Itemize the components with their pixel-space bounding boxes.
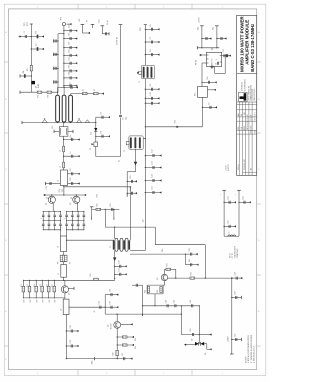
transistor Q4 BD139 <box>108 314 121 359</box>
resistor R6 <box>47 91 52 97</box>
wire T2 secondary down <box>127 149 137 196</box>
svg-text:3. SEE A.B.1,2,3,4,5,6: 3. SEE A.B.1,2,3,4,5,6 <box>253 346 256 363</box>
svg-text:C62: C62 <box>69 72 71 75</box>
svg-text:L5: L5 <box>58 180 60 182</box>
capacitor C51 <box>63 33 77 40</box>
svg-text:L3: L3 <box>59 150 61 152</box>
resistor R24 <box>190 272 195 279</box>
capacitor C14 <box>145 174 162 182</box>
svg-text:Q3: Q3 <box>69 293 71 295</box>
title text AMPLIFIER MODULE <box>245 20 250 65</box>
svg-text:Q4: Q4 <box>108 325 110 327</box>
transistor Q5 <box>157 274 168 280</box>
wire U2 output <box>208 89 216 91</box>
svg-text:J3: J3 <box>94 311 96 313</box>
capacitor C35 <box>105 289 118 296</box>
wire U2 to interstage <box>201 97 203 127</box>
ladder value labels <box>24 299 57 303</box>
svg-text:R13: R13 <box>27 284 29 287</box>
svg-text:R17: R17 <box>52 284 54 287</box>
svg-text:L8: L8 <box>60 309 62 311</box>
resistor R7 pair <box>58 252 72 265</box>
svg-text:D4: D4 <box>205 353 207 355</box>
capacitor C3 <box>96 112 110 119</box>
capacitor C9 <box>145 84 160 91</box>
svg-text:C22: C22 <box>52 126 54 129</box>
wire U1 output net <box>201 63 206 87</box>
wire T3 output <box>113 251 116 279</box>
svg-text:D3: D3 <box>191 339 193 341</box>
ferrite bead FB1 <box>175 120 180 128</box>
capacitor bank Q2 emitter <box>64 211 86 230</box>
capacitor C2 <box>70 82 78 89</box>
svg-text:C54: C54 <box>69 57 71 60</box>
svg-text:SUPPLY: SUPPLY <box>228 163 230 171</box>
transistor Q1 <box>46 195 56 211</box>
svg-text:R15: R15 <box>40 284 42 287</box>
svg-text:C52: C52 <box>69 42 71 45</box>
svg-text:+: + <box>220 194 222 195</box>
svg-text:C34: C34 <box>98 301 100 304</box>
terminal TAB1 <box>42 118 47 122</box>
resistor R4 <box>20 71 32 78</box>
resistor R19 <box>117 344 137 349</box>
inductor L9 <box>224 232 239 237</box>
wire predriver collector bus <box>43 188 86 196</box>
capacitor C8 <box>145 50 160 57</box>
wire Q5 collector <box>168 278 177 279</box>
wire balun top net <box>58 87 78 95</box>
diode D1 <box>32 81 41 88</box>
svg-text:NOTES:: NOTES: <box>245 356 247 363</box>
wire attenuator rail <box>91 117 121 156</box>
resistor R15 <box>40 280 44 299</box>
wire collector supply line <box>176 277 233 279</box>
wire Q5 emitter <box>164 281 166 285</box>
svg-text:R16: R16 <box>46 284 48 287</box>
svg-text:C14: C14 <box>152 174 154 177</box>
svg-text:R23: R23 <box>157 290 159 293</box>
capacitor C40 <box>130 248 198 255</box>
company address text <box>248 85 256 101</box>
svg-text:RF IN: RF IN <box>195 59 197 65</box>
company name text <box>242 79 247 92</box>
svg-text:1. NOT ALL COMPONENTS FITTED: 1. NOT ALL COMPONENTS FITTED <box>247 335 250 363</box>
title block outline <box>237 15 257 175</box>
capacitor C58 <box>54 80 59 83</box>
wire RF drive input <box>195 54 206 65</box>
svg-text:C16: C16 <box>99 20 101 23</box>
svg-text:C31: C31 <box>118 268 120 271</box>
svg-text:M57727: M57727 <box>212 59 214 66</box>
svg-text:C28: C28 <box>70 178 72 181</box>
svg-text:C41: C41 <box>189 259 191 262</box>
title table grid <box>237 102 257 175</box>
capacitor C25 <box>63 152 80 158</box>
svg-text:T3: T3 <box>110 246 112 248</box>
svg-text:TR4: TR4 <box>162 249 164 252</box>
svg-text:R24: R24 <box>190 272 192 275</box>
svg-text:C2: C2 <box>35 44 37 46</box>
svg-text:C48: C48 <box>235 272 237 275</box>
capacitor C52 <box>63 42 77 49</box>
svg-text:BD139: BD139 <box>110 324 112 330</box>
filter U2 <box>195 87 208 98</box>
frame zone ticks top edge <box>37 4 224 9</box>
wire bias rail <box>63 26 65 88</box>
capacitor C30 <box>114 260 127 267</box>
svg-text:FL1: FL1 <box>195 93 197 96</box>
svg-text:R30: R30 <box>59 189 61 192</box>
svg-text:C10: C10 <box>150 92 152 95</box>
svg-text:L7: L7 <box>58 273 60 275</box>
inductor L4 <box>59 162 64 168</box>
svg-text:C59: C59 <box>130 176 132 179</box>
svg-text:1n: 1n <box>70 135 72 137</box>
svg-text:1n: 1n <box>119 160 121 162</box>
svg-text:C40: C40 <box>189 248 191 251</box>
capacitor C4 <box>95 131 110 138</box>
wire balun bottom bus <box>22 121 91 124</box>
svg-text:B.123.10: B.123.10 <box>250 114 252 120</box>
page outline (scan edge) <box>4 4 266 375</box>
frame zone ticks left edge <box>4 31 8 361</box>
inductor L3 <box>59 146 64 152</box>
svg-text:C30: C30 <box>118 260 120 263</box>
wire Q4 base stub <box>121 323 133 325</box>
svg-text:C36: C36 <box>110 301 112 304</box>
capacitor C46 <box>231 292 241 299</box>
svg-text:C45: C45 <box>190 329 192 332</box>
wire decoupling rail A <box>220 190 226 236</box>
svg-text:+13.8V: +13.8V <box>198 16 200 23</box>
svg-text:C2: C2 <box>70 82 72 84</box>
wire predriver feed <box>63 186 131 195</box>
capacitor C18 <box>216 37 226 40</box>
fuse F1 <box>90 142 98 150</box>
resistor R20 <box>113 350 119 355</box>
inductor L1a <box>71 89 104 95</box>
svg-text:C44: C44 <box>243 196 245 199</box>
resistor R10 bias ladder <box>90 204 120 211</box>
svg-text:J1 RF IN: J1 RF IN <box>117 37 119 45</box>
inductor L8 choke <box>60 299 69 314</box>
capacitor C32 <box>66 325 79 332</box>
transformer T1 winding a <box>56 95 60 122</box>
wire driver supply stub 2 <box>215 26 219 48</box>
svg-text:C9 1n: C9 1n <box>107 20 109 25</box>
terminal TAB2 <box>77 118 82 122</box>
svg-text:C43: C43 <box>228 221 230 224</box>
resistor R12 <box>21 280 25 299</box>
svg-text:FIT TO: FIT TO <box>232 252 234 258</box>
wire rail to T3 <box>130 187 145 251</box>
trimmer capacitor CV1 <box>52 123 73 141</box>
terminal TAB3 <box>85 120 89 123</box>
wire driver supply stub 1 <box>198 16 203 47</box>
transformer T1 winding c <box>69 95 73 122</box>
svg-text:C39: C39 <box>173 300 175 303</box>
transformer T2 interstage <box>124 136 146 152</box>
wire supply node net <box>69 295 106 315</box>
svg-text:C3: C3 <box>101 112 103 114</box>
svg-text:C32: C32 <box>70 325 72 328</box>
capacitor C62 <box>63 72 77 79</box>
capacitor C31 <box>114 268 127 275</box>
svg-text:R7: R7 <box>87 20 89 22</box>
inductor L5 choke <box>58 170 68 186</box>
svg-text:T2: T2 <box>124 150 126 152</box>
wire output stub network <box>180 306 182 335</box>
capacitor C38 <box>166 300 169 307</box>
wire output chain down <box>65 315 67 359</box>
resistor R14 <box>34 280 38 299</box>
wire output node <box>199 306 212 344</box>
svg-text:2. * DENOTES SELECTED ON TEST: 2. * DENOTES SELECTED ON TEST <box>251 335 253 363</box>
svg-text:10: 10 <box>209 103 211 105</box>
wire decoupling bus <box>142 294 200 307</box>
svg-text:Q1: Q1 <box>46 203 48 205</box>
inductor L6 choke <box>58 236 67 252</box>
svg-text:C6: C6 <box>150 24 152 26</box>
svg-text:COMTECH: COMTECH <box>242 82 244 91</box>
transformer T1 <box>137 65 154 83</box>
wire antenna rail <box>227 278 234 354</box>
resistor R1 <box>19 31 45 38</box>
svg-text:Q2: Q2 <box>70 203 72 205</box>
capacitor C6 <box>145 24 160 31</box>
svg-text:C37: C37 <box>122 353 124 356</box>
capacitor C45 <box>181 329 199 336</box>
capacitor C16 <box>99 20 109 36</box>
svg-text:R12: R12 <box>21 284 23 287</box>
svg-text:MB: MB <box>244 112 246 114</box>
resistor R5 <box>37 91 42 97</box>
svg-text:C8: C8 <box>150 50 152 52</box>
diode D3 <box>184 339 199 346</box>
transformer T3 bars <box>110 240 130 249</box>
svg-text:CHK: CHK <box>241 127 243 130</box>
capacitor C54 <box>63 57 77 64</box>
capacitor C41 <box>186 254 199 266</box>
capacitor C50 <box>63 25 77 32</box>
resistor R18 <box>117 336 137 341</box>
capacitor C64 <box>216 58 219 65</box>
wire exciter rail <box>63 136 65 170</box>
wire decoupling rail B <box>235 190 241 236</box>
svg-text:R31: R31 <box>97 194 99 197</box>
frame zone ticks right edge <box>257 31 261 346</box>
svg-text:R18: R18 <box>135 338 137 341</box>
inductor L7 choke <box>58 262 67 278</box>
node TP1 label <box>24 21 29 26</box>
svg-text:R20: R20 <box>113 353 115 356</box>
svg-text:R9: R9 <box>69 262 71 264</box>
resistor R16 <box>46 280 50 299</box>
inductor L1b <box>94 89 105 95</box>
capacitor C61 <box>63 65 77 72</box>
capacitor C33 <box>66 340 79 347</box>
capacitor C20 <box>202 103 217 109</box>
svg-text:R3: R3 <box>27 69 29 71</box>
svg-text:10p: 10p <box>125 117 127 120</box>
capacitor C37 <box>122 353 125 360</box>
resistor R21 feedback <box>165 263 176 278</box>
svg-text:C15: C15 <box>152 186 154 189</box>
svg-text:DRG No: DRG No <box>238 164 240 170</box>
capacitor C56 <box>54 53 59 56</box>
connector J1 RF input <box>117 25 123 115</box>
svg-text:C7: C7 <box>150 37 152 39</box>
svg-text:F1: F1 <box>90 148 92 150</box>
svg-text:BAND C-S3 138-174MHz: BAND C-S3 138-174MHz <box>250 24 255 72</box>
wire main supply line <box>105 314 182 315</box>
wire supply stub B <box>91 24 95 28</box>
svg-text:R10: R10 <box>96 204 98 207</box>
svg-text:C1: C1 <box>24 31 26 33</box>
wire bias sub rail <box>57 33 65 93</box>
svg-text:J2 ANT: J2 ANT <box>227 335 230 342</box>
resistor R23 <box>157 287 162 293</box>
capacitor C17 <box>201 37 211 40</box>
resistor R17 <box>52 280 56 299</box>
wire bank to choke <box>61 230 67 236</box>
svg-text:R22: R22 <box>144 290 146 293</box>
wire Q5 base feed <box>132 284 143 316</box>
svg-text:COMPOUND: COMPOUND <box>237 248 239 258</box>
svg-text:C60: C60 <box>130 187 132 190</box>
frame zone ticks bottom edge <box>37 370 224 376</box>
svg-text:C46: C46 <box>234 292 236 295</box>
svg-text:10.3.94: 10.3.94 <box>247 114 249 119</box>
svg-text:T1: T1 <box>139 81 141 83</box>
svg-text:C42: C42 <box>228 196 230 199</box>
wire interstage net <box>145 126 203 127</box>
transformer T3 loops <box>115 238 128 251</box>
svg-text:4148: 4148 <box>38 84 40 88</box>
svg-text:+: + <box>235 194 237 195</box>
capacitor C1 <box>31 44 44 51</box>
capacitor C42 <box>224 196 237 203</box>
svg-text:C5: C5 <box>123 118 125 120</box>
capacitor C15 <box>145 186 162 194</box>
svg-text:Q5: Q5 <box>157 278 159 280</box>
diode D2 <box>91 128 98 135</box>
svg-text:L1: L1 <box>83 89 85 91</box>
wire choke L6 to T3 <box>66 240 114 241</box>
svg-text:R8: R8 <box>58 262 60 264</box>
svg-text:R14: R14 <box>34 284 36 287</box>
svg-text:L4: L4 <box>59 166 61 168</box>
node TP2 label <box>140 26 142 31</box>
capacitor C49 <box>190 300 193 307</box>
svg-text:DB: DB <box>241 114 243 116</box>
svg-text:C47: C47 <box>234 334 236 337</box>
svg-text:R2: R2 <box>36 31 38 33</box>
svg-text:R19: R19 <box>135 346 137 349</box>
svg-text:C27: C27 <box>70 168 72 171</box>
svg-text:C26: C26 <box>46 186 48 189</box>
diode D4 <box>201 342 212 355</box>
resistor R11 <box>90 274 98 281</box>
misc value labels <box>47 20 215 252</box>
svg-text:FB1: FB1 <box>175 120 177 123</box>
drawing frame border <box>9 9 257 370</box>
svg-text:L10: L10 <box>143 220 145 223</box>
svg-text:10n: 10n <box>207 77 209 80</box>
capacitor C21 <box>222 49 231 57</box>
svg-text:C50: C50 <box>69 25 71 28</box>
op-amp U1 driver module <box>207 52 222 66</box>
wire main RF rail <box>144 25 147 227</box>
capacitor C24 <box>63 135 80 141</box>
svg-text:L2: L2 <box>94 89 96 91</box>
capacitor C44 <box>238 196 250 203</box>
wire bias ladder drops <box>92 209 114 227</box>
svg-text:C4: C4 <box>101 131 103 133</box>
wire control bus <box>20 91 58 94</box>
capacitor C39 <box>173 300 176 307</box>
capacitor C48 <box>232 272 243 279</box>
svg-text:C53: C53 <box>69 50 71 53</box>
wire exciter node A <box>45 182 60 190</box>
capacitor C7 <box>145 37 160 44</box>
capacitor C53 <box>63 50 77 57</box>
svg-text:R21: R21 <box>166 263 168 266</box>
svg-text:C51: C51 <box>69 33 71 36</box>
wire bottom ground bus <box>66 357 133 364</box>
capacitor C55 <box>54 39 59 42</box>
svg-text:SHT 1 OF 1: SHT 1 OF 1 <box>255 112 257 120</box>
svg-text:C21: C21 <box>223 49 225 52</box>
resistor R3 <box>27 65 32 71</box>
title table cell text <box>237 112 257 170</box>
node TP2 test point <box>60 17 71 26</box>
capacitor C12 <box>145 149 162 157</box>
svg-text:C9: C9 <box>150 84 152 86</box>
capacitor C28 <box>68 178 80 185</box>
capacitor C34 <box>98 301 101 308</box>
svg-text:DRN: DRN <box>238 127 240 130</box>
svg-text:TEL 0293 531221: TEL 0293 531221 <box>252 89 254 101</box>
wire choke to PSU rail <box>63 277 65 280</box>
capacitor C19 <box>202 77 217 84</box>
transistor Q3 <box>61 280 74 299</box>
svg-text:CD.0123.100: CD.0123.100 <box>244 159 246 170</box>
svg-text:L9: L9 <box>229 232 231 234</box>
svg-text:C35: C35 <box>110 289 112 292</box>
capacitor C36 <box>105 301 118 308</box>
svg-text:C33: C33 <box>70 340 72 343</box>
capacitor C60 <box>127 187 137 194</box>
capacitor C63 <box>63 84 77 87</box>
node +13.8V supply label <box>226 163 231 171</box>
wire bias net <box>155 227 206 279</box>
resistor R13 <box>27 280 31 299</box>
notes text block <box>245 335 255 363</box>
svg-text:C49: C49 <box>190 300 192 303</box>
capacitor C27 <box>68 168 80 175</box>
title text MXR50 100 WATT POWER <box>239 16 244 72</box>
svg-text:Q6 Q7: Q6 Q7 <box>230 253 232 258</box>
resistor R22 <box>144 287 149 293</box>
svg-text:1n: 1n <box>70 152 72 154</box>
wire driver supply feed <box>197 46 219 50</box>
svg-text:C12: C12 <box>152 149 154 152</box>
svg-text:C13: C13 <box>152 161 154 164</box>
capacitor C43 <box>224 221 237 228</box>
transistor Q2 <box>70 195 80 211</box>
